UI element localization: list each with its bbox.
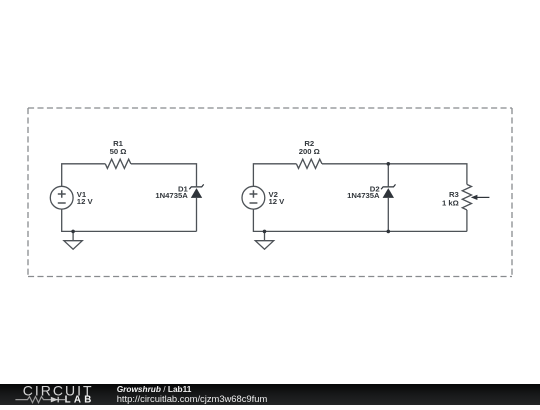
junction dot ground circuit 1: [71, 230, 75, 234]
wire R2 to node A: [322, 163, 388, 165]
resistor R1: [105, 159, 131, 168]
resistor R3 (rheostat): [462, 184, 471, 210]
voltage source V2: [242, 186, 265, 209]
wire D2 bottom: [387, 198, 389, 232]
junction dot ground circuit 2: [263, 230, 267, 234]
svg-text:200 Ω: 200 Ω: [299, 147, 320, 156]
voltage source V1: [50, 186, 73, 209]
svg-text:1 kΩ: 1 kΩ: [442, 198, 459, 207]
ground GND2 stem: [264, 231, 266, 240]
resistor R2: [296, 159, 322, 168]
wire bottom rail circuit 2: [253, 209, 467, 232]
ground GND1 symbol: [64, 241, 82, 250]
svg-text:LAB: LAB: [65, 395, 95, 406]
logo squiggle wire: [15, 397, 65, 403]
svg-text:1N4735A: 1N4735A: [347, 191, 380, 200]
ground GND2 symbol: [255, 241, 273, 250]
wire V2 top to R2: [253, 164, 296, 187]
wire R1 to D1 top: [131, 164, 197, 187]
junction dot node A (D2 top): [387, 162, 391, 166]
wire V1 top to R1: [62, 164, 106, 187]
logo diode cathode bar: [57, 397, 59, 403]
wire D1 bottom to bottom rail: [196, 198, 198, 232]
wire R3 bottom to bottom rail: [466, 210, 468, 231]
diode D2 zener bar: [381, 184, 395, 189]
svg-text:1N4735A: 1N4735A: [155, 191, 188, 200]
wire node A to R3 top: [388, 164, 467, 185]
junction dot D2 bottom: [387, 230, 391, 234]
diode D2 zener triangle: [383, 188, 394, 198]
rheostat R3 wiper line: [477, 196, 490, 198]
wire D2 top: [387, 164, 389, 187]
ground GND1 stem: [72, 231, 74, 240]
svg-text:12 V: 12 V: [77, 197, 94, 206]
footer bar: [0, 384, 540, 405]
wire bottom rail circuit 1: [62, 209, 197, 232]
diode D1 zener triangle: [191, 188, 202, 198]
svg-text:12 V: 12 V: [269, 197, 286, 206]
diode D1 zener bar: [189, 184, 203, 189]
svg-text:50 Ω: 50 Ω: [110, 147, 127, 156]
svg-text:http://circuitlab.com/cjzm3w68: http://circuitlab.com/cjzm3w68c9fum: [117, 393, 268, 404]
rheostat R3 wiper arrowhead: [471, 195, 478, 200]
schematic boundary box: [28, 108, 512, 277]
logo diode symbol: [51, 397, 58, 403]
